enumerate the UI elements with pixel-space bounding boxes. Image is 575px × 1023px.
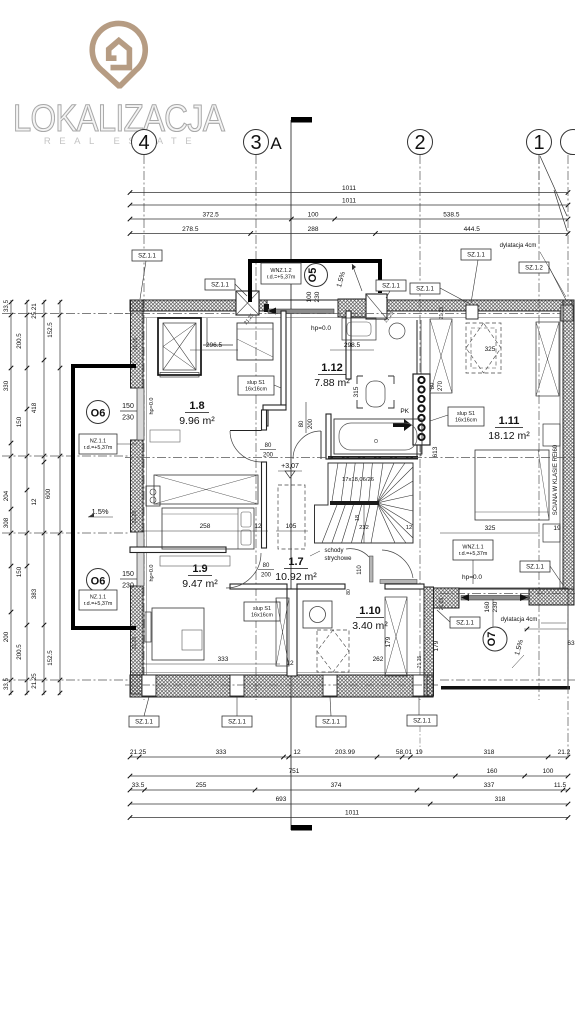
wardrobe X right in 1.11: [536, 322, 559, 396]
svg-text:12: 12: [254, 523, 262, 530]
door 1.8 arc: [230, 431, 262, 462]
svg-text:O7: O7: [486, 632, 498, 647]
slup S1 label in 1.8: [238, 376, 274, 395]
svg-text:21.25: 21.25: [130, 749, 147, 756]
svg-text:3.40 m²: 3.40 m²: [352, 620, 388, 632]
hall lower door arc: [346, 549, 369, 557]
SZ.1.1 label right near terrace: [520, 561, 550, 572]
svg-text:204: 204: [3, 490, 10, 501]
nightstand with circles: [146, 486, 160, 506]
bottom-right vertical wall hatched: [424, 587, 434, 696]
svg-text:1.10: 1.10: [359, 605, 380, 617]
svg-text:160: 160: [487, 768, 498, 775]
top terrace outline thick: [250, 261, 380, 302]
terrace O7 area lines: [459, 587, 568, 589]
svg-text:21,25: 21,25: [439, 598, 445, 611]
svg-text:255: 255: [196, 782, 207, 789]
top wall terrace door opening: [267, 299, 338, 301]
svg-text:100: 100: [306, 291, 313, 302]
grid axis line 1: [538, 155, 540, 700]
bottom dimension row 693/318: [130, 803, 568, 805]
SZ.1.1 label near O7 terrace: [450, 617, 480, 628]
svg-text:r.d.=+5,37m: r.d.=+5,37m: [84, 445, 113, 451]
closet in 1.8 top: [206, 318, 208, 345]
chimney arrow: [393, 419, 412, 431]
svg-text:230: 230: [122, 415, 134, 422]
svg-text:16x16cm: 16x16cm: [455, 418, 477, 424]
svg-text:80: 80: [263, 563, 270, 569]
svg-text:LOKALIZACJA: LOKALIZACJA: [13, 97, 225, 140]
svg-text:152.5: 152.5: [47, 650, 54, 666]
svg-text:SZ.1.1: SZ.1.1: [138, 254, 156, 260]
left wall window O6 upper frame: [137, 388, 144, 440]
grid axis line 2: [419, 155, 421, 700]
grid axis line 4: [143, 155, 145, 700]
radiator 1.9 left wall: [145, 612, 151, 642]
wall 1.8 door stub upper: [262, 410, 267, 430]
bottom dimension row 1011: [130, 817, 568, 819]
svg-text:4: 4: [138, 132, 149, 154]
svg-text:150: 150: [122, 571, 134, 578]
SZ.1.1 label bottom mid: [316, 716, 346, 727]
svg-text:SCIANA W KLASIE REI60: SCIANA W KLASIE REI60: [553, 444, 559, 515]
svg-text:10.92 m²: 10.92 m²: [275, 571, 317, 583]
svg-text:538.5: 538.5: [443, 212, 460, 219]
svg-text:1011: 1011: [342, 198, 356, 205]
svg-text:SZ.1.1: SZ.1.1: [526, 565, 544, 571]
svg-text:232: 232: [359, 525, 369, 531]
interior wall jog above hall door: [263, 405, 286, 410]
bottom dimension row 21.25/333/12/203.99/58.01/19/318/21.25: [130, 756, 568, 758]
bottom wall axis dash-dot: [125, 684, 440, 686]
svg-text:slup S1: slup S1: [457, 411, 475, 417]
svg-text:REAL ESTATE: REAL ESTATE: [44, 136, 200, 147]
stairs top wall: [328, 456, 418, 460]
svg-text:200: 200: [3, 631, 10, 642]
svg-text:315: 315: [353, 386, 360, 397]
top dimension row 278.5/288/444.5: [130, 233, 568, 235]
bottom dimension row 33.5/255/374/337/11.5: [130, 789, 568, 791]
door 1.10 leaf horizontal gray: [380, 580, 417, 584]
top terrace WNZ.1.2 label: [261, 263, 301, 284]
stairs winder rays lower right: [377, 503, 413, 511]
svg-text:105: 105: [286, 523, 297, 530]
svg-text:150: 150: [16, 566, 23, 577]
terrace door jamb blocks: [264, 304, 269, 312]
svg-text:hp=0.0: hp=0.0: [149, 565, 155, 582]
svg-text:WNZ.1.2: WNZ.1.2: [270, 268, 291, 274]
slup S1 label in 1.11: [448, 407, 484, 426]
svg-text:dylatacja 4cm: dylatacja 4cm: [501, 617, 538, 623]
section marker top bar: [291, 117, 312, 123]
svg-text:hp=0.0: hp=0.0: [311, 325, 331, 332]
wardrobe X left in 1.11: [430, 319, 452, 393]
desk in 1.9: [152, 608, 204, 660]
bed in 1.11: [475, 450, 549, 520]
svg-text:12: 12: [293, 749, 301, 756]
svg-text:A: A: [270, 134, 282, 153]
svg-text:179: 179: [433, 640, 440, 651]
left horizontal extension dash-dot lines: [2, 313, 130, 315]
toilet 1.12 top: [389, 323, 405, 339]
SZ.1.2 label top right: [519, 262, 549, 273]
svg-text:SZ.1.1: SZ.1.1: [211, 283, 229, 289]
left balcony NZ.1.1 label upper: [79, 434, 117, 454]
grid bubble 3: [244, 130, 269, 155]
svg-text:179: 179: [385, 636, 392, 647]
interior wall 1.8|1.12 vertical: [281, 311, 286, 405]
svg-text:318: 318: [484, 749, 495, 756]
svg-text:308: 308: [3, 517, 10, 528]
svg-text:hp=0.0: hp=0.0: [462, 574, 482, 581]
door 1.8 leaf horizontal: [230, 430, 262, 432]
svg-text:17x18,06/26: 17x18,06/26: [342, 477, 374, 483]
axis dash-dot at terrace O7 wall: [440, 593, 575, 595]
svg-text:80: 80: [265, 443, 272, 449]
bed top in 1.8: [237, 323, 273, 360]
svg-text:200.5: 200.5: [16, 333, 23, 349]
leader from grid bubble 1 to dimension ends: [538, 155, 540, 190]
nightstand lower 1.11: [543, 524, 560, 542]
SZ.1.1 label right section: [410, 283, 440, 294]
svg-text:33.5: 33.5: [132, 782, 145, 789]
hall lower door leaf vertical gray: [370, 556, 374, 582]
washbasin cabinet 1.12: [342, 318, 376, 340]
left dimension chain lines: [10, 300, 12, 695]
stairs winder rays upper right: [377, 463, 383, 503]
top wall inner face line right part: [338, 317, 560, 319]
svg-text:r.d.=+5,37m: r.d.=+5,37m: [459, 551, 488, 557]
svg-text:258: 258: [200, 523, 211, 530]
svg-text:12: 12: [31, 498, 38, 505]
bottom exterior wall hatched band: [130, 675, 433, 697]
svg-text:288: 288: [308, 226, 319, 233]
svg-text:19: 19: [553, 525, 561, 532]
svg-text:3: 3: [250, 132, 261, 154]
top dimension row 1011 (1): [130, 192, 568, 194]
left wall window O6 lower frame: [137, 532, 144, 586]
svg-text:110: 110: [357, 565, 363, 575]
axis dash-dot bottom right: [440, 679, 575, 681]
svg-text:21,25: 21,25: [439, 307, 445, 320]
section marker bottom bar: [291, 825, 312, 831]
svg-text:150: 150: [16, 416, 23, 427]
svg-text:33.5: 33.5: [3, 299, 10, 312]
SZ.1.1 label bottom far-left: [129, 716, 159, 727]
svg-text:dylatacja 4cm: dylatacja 4cm: [500, 243, 537, 249]
svg-text:600: 600: [45, 488, 52, 499]
svg-text:NZ.1.1: NZ.1.1: [90, 439, 106, 445]
svg-text:SZ.1.1: SZ.1.1: [467, 253, 485, 259]
svg-text:schody: schody: [324, 548, 343, 554]
svg-text:200.5: 200.5: [16, 644, 23, 660]
O7 circle label: [483, 627, 507, 651]
svg-text:11.5: 11.5: [554, 782, 567, 789]
svg-text:hp=0.0: hp=0.0: [149, 398, 155, 415]
svg-text:WNZ.1.1: WNZ.1.1: [462, 545, 483, 551]
svg-text:1011: 1011: [342, 185, 356, 192]
svg-text:21,25: 21,25: [133, 338, 139, 351]
svg-text:NZ.1.1: NZ.1.1: [90, 595, 106, 601]
svg-text:418: 418: [31, 402, 38, 413]
svg-text:230: 230: [122, 583, 134, 590]
bottom wall pier blocks: [142, 675, 156, 696]
svg-text:SZ.1.1: SZ.1.1: [416, 287, 434, 293]
svg-text:18.12 m²: 18.12 m²: [488, 430, 530, 442]
stairs upper flight treads: [332, 463, 338, 501]
svg-text:100: 100: [543, 768, 554, 775]
top wall pier at terrace right: [366, 294, 387, 319]
svg-text:PK: PK: [400, 408, 409, 415]
desk shelf right of window: [150, 430, 180, 442]
door 1.10 arc: [382, 550, 413, 578]
svg-text:21.25: 21.25: [31, 673, 38, 689]
svg-text:58.01: 58.01: [396, 749, 413, 756]
shelf in 1.9 top: [160, 556, 230, 566]
top dimension row 372.5/100/538.5: [130, 218, 568, 220]
chimney PK column: [413, 374, 430, 445]
top exterior wall hatched band: [130, 300, 267, 311]
SZ.1.1 label right upper: [461, 249, 491, 260]
right exterior wall REI60 hatched: [563, 300, 574, 589]
top wall inner face line left part: [143, 317, 267, 319]
tall X duct right of 1.9 wall: [276, 598, 289, 666]
right lower exterior wall under 1.11: [529, 589, 574, 605]
svg-text:21,25: 21,25: [132, 637, 138, 650]
svg-text:278.5: 278.5: [182, 226, 199, 233]
wall segment 1.10 top right with door: [385, 584, 424, 589]
section line A vertical: [290, 120, 292, 700]
svg-text:298.5: 298.5: [344, 342, 361, 349]
svg-text:21.2: 21.2: [558, 749, 571, 756]
dim 105 arc leader: [276, 530, 308, 532]
svg-text:1.11: 1.11: [499, 415, 520, 427]
left balcony O6 window label upper: [87, 401, 110, 424]
svg-text:318: 318: [495, 796, 506, 803]
roof window dashed in 1.11: [466, 323, 501, 373]
left wall inner face line: [146, 318, 148, 675]
interior wall 1.9|1.10 vertical: [287, 589, 297, 676]
svg-text:337: 337: [484, 782, 495, 789]
top wall pier SZ left: [236, 291, 259, 315]
bathroom 1.12 left wall lower: [326, 414, 331, 459]
svg-text:16x16cm: 16x16cm: [245, 387, 267, 393]
vertical dash-dot right terrace: [567, 605, 569, 760]
svg-text:152.5: 152.5: [47, 322, 54, 338]
svg-text:O6: O6: [91, 576, 106, 588]
left chain ticks: [9, 300, 14, 305]
svg-text:r.d.=+5,37m: r.d.=+5,37m: [267, 275, 296, 281]
svg-text:1: 1: [533, 132, 544, 154]
bottom wall inner face line: [131, 672, 433, 674]
SZ.1.1 label bottom mid-left: [222, 716, 252, 727]
svg-text:63: 63: [567, 640, 575, 647]
stairs handrail dark: [330, 501, 379, 505]
bathtub: [334, 419, 422, 454]
WC fixture mid: [366, 381, 385, 407]
SZ.1.1 label on grid 4: [132, 250, 162, 261]
svg-text:SZ.1.1: SZ.1.1: [228, 720, 246, 726]
window/wardrobe with X in 1.8: [158, 318, 201, 375]
stairs outline L-shape: [315, 463, 414, 543]
left balcony O6 window label lower: [87, 569, 110, 592]
svg-text:1.9: 1.9: [192, 563, 207, 575]
bed lower in 1.8: [162, 508, 254, 549]
wall right of bathroom x417: [416, 320, 418, 456]
svg-text:9.47 m²: 9.47 m²: [182, 578, 218, 590]
svg-text:7.88 m²: 7.88 m²: [314, 377, 350, 389]
svg-text:333: 333: [218, 656, 229, 663]
wall 1.8|1.9 horizontal divider: [130, 547, 226, 553]
svg-text:2: 2: [414, 132, 425, 154]
bottom dimension row 751/160/100: [130, 775, 568, 777]
couch in 1.8: [154, 475, 258, 504]
svg-text:100: 100: [308, 212, 319, 219]
svg-text:613: 613: [432, 446, 439, 457]
top wall axis dash-dot: [125, 313, 572, 315]
bottom-right horizontal wall block: [434, 588, 460, 608]
svg-text:1.5%: 1.5%: [91, 507, 108, 516]
svg-text:19: 19: [415, 749, 423, 756]
grid bubble 2: [408, 130, 433, 155]
door 1.9 arc from hall: [226, 553, 261, 588]
SZ.1.1 label left of terrace: [205, 279, 235, 290]
right wall axis dash-dot: [567, 155, 569, 300]
terrace O7 bottom thick edge: [441, 686, 570, 690]
axis dash-dot mid plan: [125, 457, 575, 459]
left exterior wall hatched segments: [131, 300, 144, 388]
svg-text:SZ.1.1: SZ.1.1: [456, 621, 474, 627]
svg-text:374: 374: [331, 782, 342, 789]
terrace O7 window dark sill: [461, 596, 528, 601]
svg-text:1.8: 1.8: [189, 400, 204, 412]
wardrobe X in 1.10 right: [385, 597, 407, 676]
svg-text:21,25: 21,25: [132, 511, 138, 524]
grid bubble 1: [527, 130, 552, 155]
grid axis line 3: [255, 155, 257, 700]
slup S1 label in 1.9: [244, 602, 280, 621]
svg-text:150: 150: [122, 403, 134, 410]
top terrace O5 window circle: [305, 264, 328, 287]
svg-text:160: 160: [484, 601, 491, 612]
stairs dashed opening rectangle: [278, 485, 305, 549]
svg-text:262: 262: [373, 656, 384, 663]
stairs tread vertical at winder: [363, 505, 365, 543]
top wall pier right corner: [561, 305, 573, 321]
svg-text:SZ.1.1: SZ.1.1: [413, 719, 431, 725]
SZ.1.1 label above wall pier mid: [376, 280, 406, 291]
stairs lower flight treads: [322, 505, 337, 543]
svg-text:230: 230: [314, 291, 321, 302]
svg-text:33.5: 33.5: [3, 677, 10, 690]
svg-text:SZ.1.2: SZ.1.2: [525, 266, 543, 272]
svg-text:325: 325: [485, 525, 496, 532]
svg-text:1011: 1011: [345, 810, 359, 817]
svg-text:SZ.1.1: SZ.1.1: [322, 720, 340, 726]
svg-text:O6: O6: [91, 408, 106, 420]
svg-text:444.5: 444.5: [464, 226, 481, 233]
svg-text:+3,07: +3,07: [281, 463, 299, 470]
nightstand upper 1.11: [543, 424, 560, 446]
interior wall hall 1.7 bottom: [230, 584, 287, 589]
grid bubble 4: [132, 130, 157, 155]
washing machine 1.10: [303, 601, 332, 628]
svg-text:325: 325: [485, 346, 496, 353]
SZ.1.1 label bottom right: [407, 715, 437, 726]
bathroom door label 80/200 vertical: [305, 402, 307, 433]
svg-text:r.d.=+5,37m: r.d.=+5,37m: [84, 601, 113, 607]
svg-text:strychowe: strychowe: [324, 556, 352, 562]
wall 1.8|1.7 vertical lower: [262, 462, 267, 548]
svg-text:SZ.1.1: SZ.1.1: [135, 720, 153, 726]
bathroom door arc: [293, 431, 321, 459]
svg-text:693: 693: [276, 796, 287, 803]
svg-text:slup S1: slup S1: [247, 380, 265, 386]
svg-text:12: 12: [406, 525, 412, 531]
partial grid bubble right edge: [561, 130, 575, 155]
logo pin-house icon: [92, 23, 145, 86]
svg-text:330: 330: [3, 380, 10, 391]
right wall inner double line: [559, 311, 561, 589]
svg-text:SZ.1.1: SZ.1.1: [382, 284, 400, 290]
svg-text:383: 383: [31, 588, 38, 599]
svg-text:25.21: 25.21: [31, 303, 38, 319]
svg-text:1.7: 1.7: [288, 556, 303, 568]
svg-text:1.12: 1.12: [321, 362, 342, 374]
left balcony NZ.1.1 label lower: [79, 590, 117, 610]
svg-text:9.96 m²: 9.96 m²: [179, 415, 215, 427]
left balcony outline thick: [73, 366, 136, 628]
svg-text:200: 200: [308, 418, 314, 429]
svg-text:751: 751: [289, 768, 300, 775]
top dimension row 1011 (2): [130, 204, 568, 206]
shower dashed diamond 1.10: [317, 630, 349, 672]
svg-text:slup S1: slup S1: [253, 606, 271, 612]
svg-text:270: 270: [438, 380, 444, 391]
bathroom 1.12 left wall upper: [346, 311, 351, 379]
svg-text:296.5: 296.5: [206, 342, 223, 349]
logo wordmark LOKALIZACJA: [13, 97, 225, 140]
svg-text:80: 80: [346, 589, 352, 595]
top wall pier right 1: [466, 305, 478, 319]
svg-text:200: 200: [261, 573, 272, 579]
svg-text:21,25: 21,25: [417, 656, 423, 669]
svg-text:18: 18: [355, 515, 361, 521]
svg-text:333: 333: [216, 749, 227, 756]
WNZ.1.1 label bottom right: [453, 540, 493, 560]
svg-text:80: 80: [299, 420, 305, 427]
svg-text:16x16cm: 16x16cm: [251, 613, 273, 619]
svg-text:372.5: 372.5: [203, 212, 220, 219]
svg-text:O5: O5: [307, 268, 319, 283]
svg-text:203.99: 203.99: [335, 749, 355, 756]
